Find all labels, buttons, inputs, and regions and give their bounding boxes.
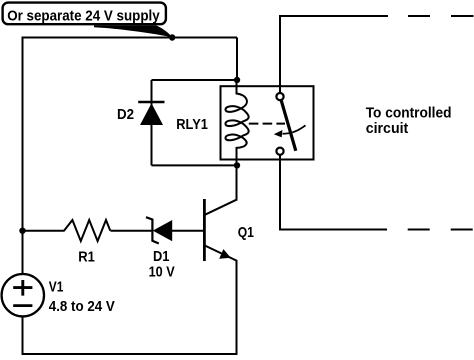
relay switch blade	[281, 100, 296, 151]
node junction dot D2 top	[234, 77, 240, 83]
source V1 plus sign	[13, 280, 32, 296]
relay switch top terminal circle	[276, 93, 283, 100]
svg-text:circuit: circuit	[366, 121, 409, 137]
relay RLY1 box	[221, 86, 314, 159]
svg-text:R1: R1	[78, 250, 95, 266]
wire emitter vertical	[236, 261, 238, 355]
wire R1 to D1	[111, 230, 153, 232]
wire top right horizontal	[279, 15, 388, 17]
transistor Q1 emitter diagonal	[205, 246, 238, 262]
svg-text:RLY1: RLY1	[176, 117, 208, 133]
wire D2 left vertical	[151, 80, 153, 165]
wire coil drop vertical	[236, 38, 238, 81]
svg-text:To controlled: To controlled	[366, 105, 452, 121]
source V1 circle	[2, 274, 44, 316]
node junction dot D2 bottom	[234, 162, 240, 168]
svg-text:10 V: 10 V	[149, 265, 175, 281]
transistor Q1 collector diagonal	[205, 199, 238, 215]
svg-text:Q1: Q1	[238, 225, 254, 241]
svg-text:Or separate 24 V supply: Or separate 24 V supply	[7, 8, 160, 24]
wire switch top stem	[279, 16, 281, 93]
wire V1 bottom to ground rail	[22, 316, 24, 354]
wire left rail vertical	[22, 37, 24, 275]
node junction dot callout target	[169, 34, 175, 40]
svg-text:D2: D2	[117, 107, 134, 123]
transistor Q1 base bar	[203, 199, 206, 261]
wire collector vertical	[236, 165, 238, 199]
diode D2 (cathode bar)	[138, 101, 164, 104]
callout box "Or separate 24 V supply"	[3, 3, 166, 25]
relay actuation arrow head	[274, 130, 283, 137]
wire top right dashed continuation	[408, 15, 474, 17]
relay switch bottom terminal circle	[276, 148, 283, 155]
callout tail	[94, 25, 173, 37]
wire switch bottom stem	[279, 155, 281, 230]
wire bottom right horizontal	[279, 229, 387, 231]
wire base from rail to R1	[23, 230, 65, 232]
wire D2 bottom branch	[152, 164, 238, 166]
relay coil (inductor)	[225, 80, 248, 165]
zener diode D1 triangle	[153, 220, 172, 241]
svg-text:4.8 to 24 V: 4.8 to 24 V	[49, 299, 115, 315]
source V1 minus sign	[13, 304, 32, 307]
wire bottom right dashed continuation	[408, 229, 473, 231]
resistor R1 zigzag	[64, 220, 110, 241]
node junction dot base rail	[19, 228, 25, 234]
relay actuation arrow arc	[283, 125, 306, 133]
svg-text:V1: V1	[49, 280, 64, 296]
diode D2 (triangle)	[140, 103, 163, 125]
wire top rail from left rail to coil drop	[23, 37, 238, 39]
wire bottom rail	[22, 353, 237, 355]
wire D1 to Q1 base	[172, 230, 204, 232]
wire D2 top branch	[152, 79, 238, 81]
transistor Q1 emitter arrowhead	[219, 249, 231, 259]
relay internal dashed link	[249, 123, 285, 125]
zener diode D1 bar with bent tips	[146, 217, 159, 243]
svg-text:D1: D1	[153, 249, 169, 265]
